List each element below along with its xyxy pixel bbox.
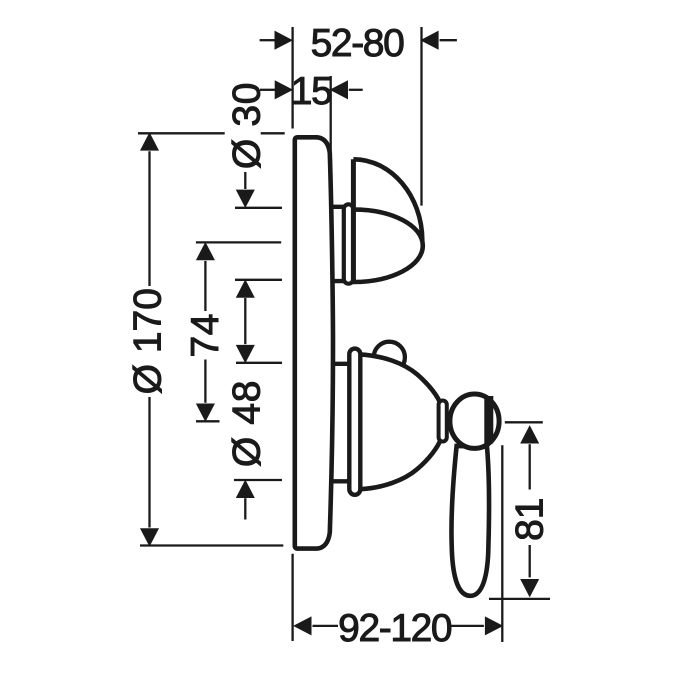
svg-text:74: 74: [184, 313, 227, 357]
svg-text:92-120: 92-120: [338, 607, 452, 650]
svg-text:52-80: 52-80: [311, 22, 404, 65]
svg-text:Ø 30: Ø 30: [225, 82, 268, 169]
svg-text:81: 81: [509, 498, 552, 541]
svg-text:15: 15: [291, 70, 332, 113]
svg-text:Ø 48: Ø 48: [225, 380, 268, 467]
svg-text:Ø 170: Ø 170: [127, 288, 170, 394]
